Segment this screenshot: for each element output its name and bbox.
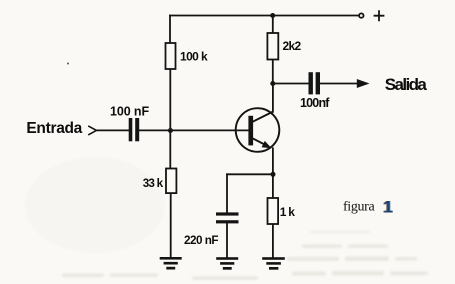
capacitor C3 220nF [184, 212, 239, 247]
supply plus sign [374, 10, 385, 21]
wire emitter node to C3 branch corner [227, 173, 273, 175]
wire rail to R 2k2 [272, 16, 274, 34]
resistor R1 100k [166, 43, 208, 69]
svg-text:100nf: 100nf [300, 96, 330, 110]
wire corner down to C3 [226, 174, 228, 212]
transistor base bar [248, 116, 253, 146]
resistor R2 33k [143, 169, 177, 194]
wire input terminal to C1 [96, 129, 128, 131]
svg-text:Entrada: Entrada [26, 120, 82, 137]
svg-text:33 k: 33 k [143, 177, 164, 190]
svg-text:1: 1 [383, 199, 392, 217]
ground under R 1k [262, 257, 285, 270]
wire left branch top (rail to R 100k) [169, 16, 171, 44]
transistor body circle [236, 108, 280, 152]
wire collector node to transistor collector [272, 84, 274, 112]
node junction top rail [270, 13, 275, 18]
wire C1 to base of Q1 [140, 129, 249, 131]
svg-text:100 k: 100 k [180, 50, 208, 64]
paper smudge [25, 157, 165, 253]
paper speck [67, 63, 69, 65]
wire emitter to emitter node and R 1k [272, 148, 274, 198]
transistor emitter arrowhead [262, 141, 272, 148]
wire C3 to ground [226, 224, 228, 258]
wire C2 to output arrow [320, 83, 358, 85]
node junction base [168, 128, 173, 133]
node junction emitter [271, 172, 276, 177]
output arrowhead [357, 79, 370, 88]
resistor R4 1k [268, 198, 296, 224]
transistor emitter lead [253, 138, 269, 146]
svg-text:1 k: 1 k [280, 205, 296, 219]
transistor collector lead [253, 112, 274, 122]
supply terminal open circle [359, 13, 363, 17]
input terminal chevron [88, 126, 96, 135]
ground under C3 [216, 257, 238, 270]
capacitor C1 100nF input [110, 104, 149, 141]
wire collector node to C2 [273, 83, 309, 85]
wire top supply rail [170, 15, 359, 17]
svg-text:figura: figura [343, 200, 375, 215]
svg-text:2k2: 2k2 [283, 39, 302, 53]
capacitor C2 100nf output [300, 72, 330, 110]
svg-text:220 nF: 220 nF [184, 234, 218, 247]
svg-text:100 nF: 100 nF [110, 104, 149, 118]
wire R 2k2 to collector node [272, 60, 274, 84]
wire left branch middle (R 100k to R 33k through base node) [169, 69, 171, 169]
node junction collector [270, 81, 275, 86]
ghost print-through lines [62, 231, 428, 280]
ground under R 33k [160, 257, 182, 270]
svg-text:Salida: Salida [385, 75, 428, 94]
resistor R3 2k2 [267, 33, 301, 60]
wire R 1k to ground [272, 224, 274, 257]
wire left branch bottom (R 33k to ground) [170, 193, 172, 257]
transistor Q1 [236, 108, 280, 152]
